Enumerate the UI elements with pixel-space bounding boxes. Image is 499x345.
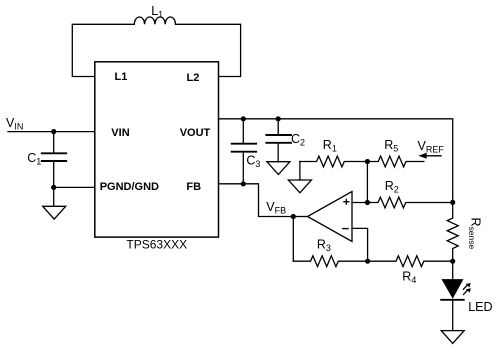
wire VIN input xyxy=(8,131,95,133)
ground (LED) xyxy=(441,331,464,344)
LED D1 xyxy=(443,280,463,298)
op-amp minus sign xyxy=(343,228,348,230)
wire R1 to ground xyxy=(299,162,301,181)
wire to LED xyxy=(452,261,454,280)
ground (R1) xyxy=(288,180,311,193)
node Rsense/R4/LED junction xyxy=(450,259,455,264)
wire to ground xyxy=(53,187,55,206)
wire VFB down to R3 xyxy=(292,217,294,262)
resistor R3 xyxy=(293,256,367,267)
svg-text:FB: FB xyxy=(186,181,201,193)
IC U1 TPS63XXX box xyxy=(95,62,219,237)
capacitor C1 xyxy=(53,132,55,153)
wire VOUT rail xyxy=(219,119,453,203)
node VIN junction xyxy=(51,129,56,134)
wire op-amp minus input xyxy=(352,228,368,261)
VREF arrow xyxy=(426,155,442,157)
node R3/R4 junction xyxy=(365,259,370,264)
wire op-amp plus input xyxy=(352,202,367,204)
node R1/R5 junction xyxy=(365,159,370,164)
svg-text:VOUT: VOUT xyxy=(180,127,211,139)
wire LED to ground xyxy=(452,300,454,331)
resistor Rsense xyxy=(447,202,458,261)
svg-text:L2: L2 xyxy=(187,72,200,84)
node VOUT junction C3 xyxy=(241,116,246,121)
op-amp U2 xyxy=(308,192,353,242)
capacitor C2 xyxy=(277,119,279,134)
wire node A vertical xyxy=(366,162,368,203)
resistor R5 xyxy=(367,156,423,167)
wire FB to VFB node xyxy=(219,184,294,217)
node R2/Rsense junction xyxy=(450,200,455,205)
resistor R4 xyxy=(368,256,453,267)
wire PGND xyxy=(54,186,95,188)
LED light arrow 1 xyxy=(463,285,467,289)
node PGND junction xyxy=(51,185,56,190)
svg-text:PGND/GND: PGND/GND xyxy=(100,181,159,193)
capacitor C3 xyxy=(242,119,244,143)
svg-text:VIN: VIN xyxy=(111,127,129,139)
resistor R2 xyxy=(367,197,452,208)
wire top loop left xyxy=(72,24,134,76)
inductor L1 xyxy=(134,17,175,24)
node FB junction xyxy=(241,181,246,186)
node plus-input junction xyxy=(365,200,370,205)
svg-text:LED: LED xyxy=(468,300,492,314)
svg-text:TPS63XXX: TPS63XXX xyxy=(126,238,187,252)
LED light arrow 2 xyxy=(464,290,468,294)
wire VFB to op-amp output xyxy=(293,216,307,218)
wire top loop right xyxy=(176,24,241,76)
ground (C1) xyxy=(43,206,66,219)
svg-text:L1: L1 xyxy=(115,71,128,83)
node VFB junction xyxy=(291,214,296,219)
node VOUT junction C2 xyxy=(276,116,281,121)
resistor R1 xyxy=(300,156,368,167)
ground (C2) xyxy=(267,162,290,175)
op-amp plus sign xyxy=(344,199,349,204)
